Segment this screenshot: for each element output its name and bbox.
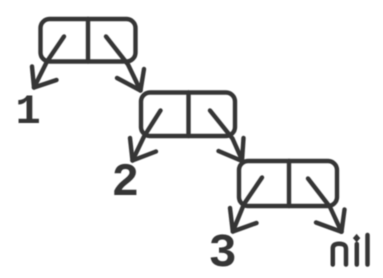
svg-text:2: 2 [112,157,140,209]
svg-text:1: 1 [16,88,41,136]
svg-text:3: 3 [209,228,237,278]
